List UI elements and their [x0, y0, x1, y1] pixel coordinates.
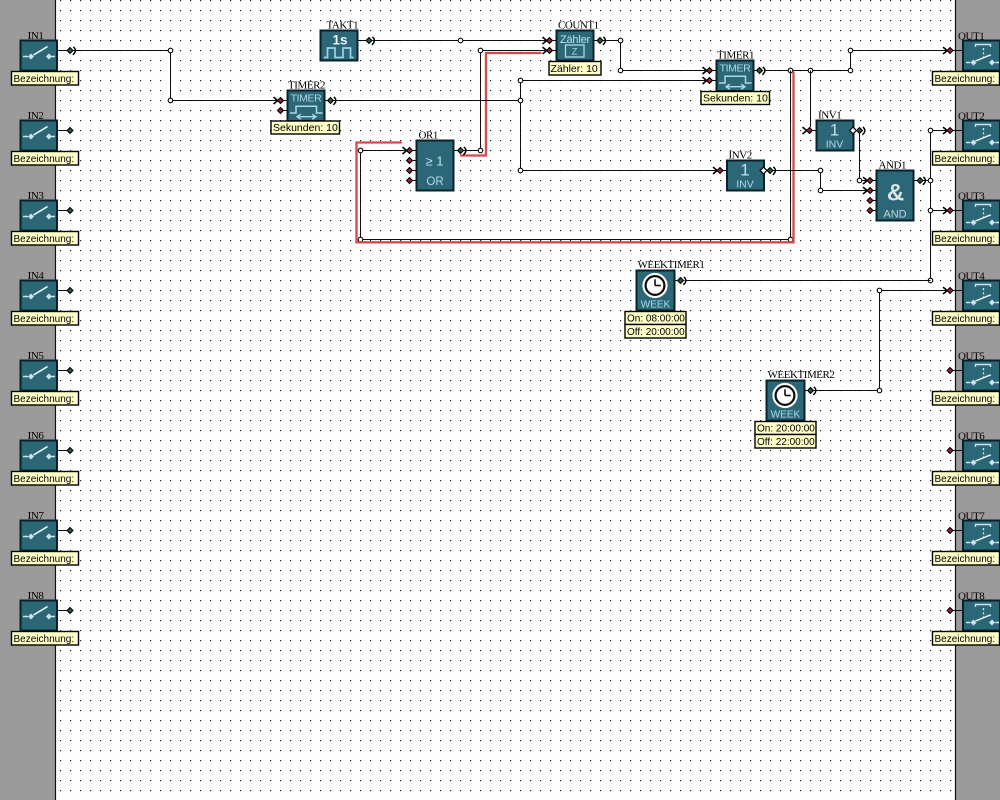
junction corner (859,180) [857, 178, 862, 183]
svg-text:Bezeichnung:: Bezeichnung: [14, 74, 75, 85]
pin 3 input OR1 [407, 168, 417, 174]
input block IN1 [21, 41, 58, 71]
svg-text:OR1: OR1 [419, 130, 438, 142]
or gate block OR1 [417, 141, 454, 191]
svg-text:OR: OR [426, 176, 443, 188]
junction node (820,170) [818, 168, 823, 173]
value label Sekunden TIMER1 [701, 92, 770, 105]
svg-text:OUT5: OUT5 [958, 350, 985, 362]
svg-text:Bezeichnung:: Bezeichnung: [935, 154, 996, 165]
wire net OR1.out to COUNT1.in2 [464, 51, 546, 151]
svg-text:Bezeichnung:: Bezeichnung: [935, 314, 996, 325]
junction corner (790,239) [788, 237, 793, 242]
value label On time WEEKTIMER1 [625, 312, 686, 325]
output pin WEEKTIMER2 [805, 387, 816, 395]
value label Bezeichnung IN7 [12, 552, 79, 566]
junction corner (620,40) [618, 38, 623, 43]
svg-text:AND: AND [883, 209, 906, 221]
input pin stub OUT7 [947, 528, 963, 534]
value label Off time WEEKTIMER1 [625, 325, 686, 339]
junction corner (930,280) [928, 278, 933, 283]
highlighted red wire OR1.out to COUNT1.in2 [461, 53, 541, 156]
junction node (930,180) [928, 178, 933, 183]
junction node (460,40) [458, 38, 463, 43]
svg-text:WEEKTIMER2: WEEKTIMER2 [768, 369, 835, 381]
pin 4 input AND1 [867, 208, 876, 214]
svg-text:1s: 1s [332, 33, 347, 48]
pin 4 input OR1 [407, 178, 417, 184]
svg-text:Zähler: Zähler [560, 34, 591, 46]
svg-text:TAKT1: TAKT1 [327, 20, 359, 32]
junction corner (850,70) [848, 68, 853, 73]
svg-text:On: 20:00:00: On: 20:00:00 [757, 424, 815, 435]
svg-text:≥ 1: ≥ 1 [426, 154, 444, 169]
input block IN3 [21, 201, 58, 231]
svg-text:WEEKTIMER1: WEEKTIMER1 [638, 259, 705, 271]
svg-text:OUT2: OUT2 [958, 110, 984, 122]
svg-text:INV: INV [826, 139, 844, 151]
svg-text:Bezeichnung:: Bezeichnung: [935, 74, 996, 85]
value label Bezeichnung IN2 [12, 152, 79, 166]
junction node (480,150) [478, 148, 483, 153]
svg-text:TIMER1: TIMER1 [717, 50, 754, 62]
clock generator block TAKT1 [321, 31, 358, 61]
svg-text:Bezeichnung:: Bezeichnung: [935, 634, 996, 645]
value label Bezeichnung OUT3 [933, 232, 1000, 246]
junction corner (520,80) [518, 78, 523, 83]
output block OUT3 [963, 201, 1000, 231]
input pin INV2 [713, 167, 727, 174]
output pin TIMER1 [754, 67, 765, 75]
svg-text:Bezeichnung:: Bezeichnung: [14, 474, 75, 485]
and gate block AND1 [877, 171, 914, 221]
svg-text:Bezeichnung:: Bezeichnung: [14, 234, 75, 245]
output block OUT5 [963, 361, 1000, 391]
svg-text:IN4: IN4 [28, 270, 45, 282]
svg-text:AND1: AND1 [879, 160, 907, 172]
input pin stub OUT2 [943, 127, 963, 134]
junction corner (820,190) [818, 188, 823, 193]
wire net TIMER2.out vertical distribution [334, 81, 717, 171]
pin 3 input AND1 [867, 198, 876, 204]
junction corner (480,50) [478, 48, 483, 53]
input pin stub OUT1 [943, 47, 963, 54]
input pin stub OUT3 [943, 207, 963, 214]
output pin stub IN7 [57, 528, 73, 534]
svg-text:Bezeichnung:: Bezeichnung: [935, 234, 996, 245]
svg-text:OUT8: OUT8 [958, 590, 985, 602]
junction node (930,130) [928, 128, 933, 133]
value label Bezeichnung OUT7 [933, 552, 1000, 566]
output pin stub IN3 [57, 208, 73, 214]
output pin TIMER2 [325, 97, 336, 105]
pin 2 input OR1 [407, 158, 417, 164]
wire net TAKT1 to COUNT1.in1 [373, 40, 546, 42]
wire net IN1 to TIMER2.in1 [74, 51, 277, 101]
value label Bezeichnung IN1 [12, 72, 79, 86]
junction node (520,100) [518, 98, 523, 103]
timer block TIMER1 [717, 61, 754, 92]
wire net INV1.out to AND1.in1 [860, 134, 867, 181]
svg-text:Bezeichnung:: Bezeichnung: [935, 474, 996, 485]
output pin OR1 [454, 147, 466, 155]
svg-text:IN3: IN3 [28, 190, 45, 202]
output pin COUNT1 [594, 37, 606, 45]
svg-text:OUT1: OUT1 [958, 30, 984, 42]
svg-text:TIMER: TIMER [720, 63, 751, 75]
svg-text:OUT7: OUT7 [958, 510, 985, 522]
pin 2 input TIMER2 [278, 108, 287, 114]
svg-text:Bezeichnung:: Bezeichnung: [935, 394, 996, 405]
value label Zaehler 10 [549, 62, 601, 76]
input block IN5 [21, 361, 58, 391]
counter block COUNT1 [557, 31, 594, 61]
junction corner (170,100) [168, 98, 173, 103]
svg-text:TIMER: TIMER [291, 93, 322, 105]
timer block TIMER2 [288, 91, 325, 122]
output pin stub IN4 [57, 288, 73, 294]
svg-text:On: 08:00:00: On: 08:00:00 [627, 314, 685, 325]
svg-text:INV1: INV1 [818, 110, 841, 122]
output pin stub IN6 [57, 448, 73, 454]
junction corner (879,290) [877, 288, 882, 293]
output pin TAKT1 [358, 37, 374, 45]
junction node (810,70) [808, 68, 813, 73]
value label Bezeichnung IN3 [12, 232, 79, 246]
svg-text:Bezeichnung:: Bezeichnung: [14, 394, 75, 405]
input block IN4 [21, 281, 58, 311]
output pin WEEKTIMER1 [675, 277, 686, 285]
svg-text:WEEK: WEEK [641, 300, 671, 311]
svg-text:IN8: IN8 [28, 590, 45, 602]
output block OUT6 [963, 441, 1000, 471]
junction corner (360,239) [358, 237, 363, 242]
weekly timer block WEEKTIMER1 [637, 271, 675, 311]
svg-text:Bezeichnung:: Bezeichnung: [935, 554, 996, 565]
input block IN2 [21, 121, 58, 151]
svg-text:&: & [887, 180, 904, 207]
pin 2 input COUNT1 [543, 47, 557, 54]
pin 1 input TIMER1 [703, 67, 717, 74]
value label Bezeichnung OUT8 [933, 632, 1000, 646]
junction node (790,70) [788, 68, 793, 73]
input block IN6 [21, 441, 58, 471]
pin 2 input AND1 [863, 187, 877, 194]
highlighted red wire feedback loop [357, 73, 794, 243]
svg-text:WEEK: WEEK [771, 410, 801, 421]
junction corner (360,150) [358, 148, 363, 153]
junction corner (850,50) [848, 48, 853, 53]
output block OUT8 [963, 601, 1000, 631]
svg-text:IN1: IN1 [28, 30, 44, 42]
wire net WEEKTIMER1.out to node (930,280) [685, 280, 931, 282]
value label Bezeichnung IN4 [12, 312, 79, 326]
value label Bezeichnung IN5 [12, 392, 79, 406]
value label On time WEEKTIMER2 [755, 422, 816, 435]
value label Bezeichnung OUT4 [933, 312, 1000, 326]
junction node (930,210) [928, 208, 933, 213]
svg-text:IN6: IN6 [28, 430, 45, 442]
svg-text:INV2: INV2 [729, 150, 752, 162]
svg-text:OUT6: OUT6 [958, 430, 985, 442]
value label Bezeichnung IN8 [12, 632, 79, 646]
junction corner (170,50) [168, 48, 173, 53]
input pin stub OUT5 [947, 368, 963, 374]
pin 1 input AND1 [863, 177, 877, 184]
wire branch to INV1.in [810, 71, 812, 128]
svg-text:Bezeichnung:: Bezeichnung: [14, 634, 75, 645]
output pin AND1 [914, 177, 926, 185]
wire net COUNT1.out to TIMER1.in1 [604, 41, 707, 71]
input pin INV1 [803, 127, 817, 134]
pin 1 input COUNT1 [543, 37, 557, 44]
output block OUT7 [963, 521, 1000, 551]
value label Bezeichnung OUT1 [933, 72, 1000, 86]
input pin stub OUT4 [943, 287, 963, 294]
value label Bezeichnung OUT6 [933, 472, 1000, 486]
inverter block INV2 [727, 161, 764, 191]
svg-text:TIMER2: TIMER2 [288, 80, 325, 92]
svg-text:IN5: IN5 [28, 350, 45, 362]
wire net AND1.out to OUT2 OUT3 [924, 131, 947, 281]
value label Bezeichnung IN6 [12, 472, 79, 486]
wire feedback TIMER1.out to OR1.in1 [361, 71, 791, 240]
svg-text:1: 1 [740, 161, 749, 180]
pin 1 input OR1 [403, 147, 417, 154]
svg-text:OUT4: OUT4 [958, 270, 985, 282]
value label Bezeichnung OUT2 [933, 152, 1000, 166]
svg-text:1: 1 [830, 121, 839, 140]
svg-text:Off: 22:00:00: Off: 22:00:00 [757, 437, 815, 448]
svg-text:Zähler: 10: Zähler: 10 [551, 63, 598, 75]
value label Off time WEEKTIMER2 [755, 435, 816, 449]
pin 1 input TIMER2 [274, 97, 288, 104]
svg-text:COUNT1: COUNT1 [558, 20, 599, 32]
svg-text:OUT3: OUT3 [958, 190, 985, 202]
svg-text:Z: Z [572, 47, 578, 58]
junction corner (620,70) [618, 68, 623, 73]
junction corner (520,170) [518, 168, 523, 173]
svg-text:Bezeichnung:: Bezeichnung: [14, 554, 75, 565]
input pin stub OUT8 [947, 608, 963, 614]
svg-text:Bezeichnung:: Bezeichnung: [14, 314, 75, 325]
svg-text:Sekunden: 10: Sekunden: 10 [703, 93, 768, 105]
svg-text:IN7: IN7 [28, 510, 45, 522]
input block IN8 [21, 601, 58, 631]
inverter block INV1 [817, 121, 854, 151]
wire net INV2.out to AND1.in2 [774, 171, 867, 191]
svg-text:Off: 20:00:00: Off: 20:00:00 [627, 327, 685, 338]
input pin stub OUT6 [947, 448, 963, 454]
output pin stub IN8 [57, 608, 73, 614]
output block OUT1 [963, 41, 1000, 71]
negated output pin INV1 [850, 127, 865, 135]
output block OUT2 [963, 121, 1000, 151]
input block IN7 [21, 521, 58, 551]
svg-text:INV: INV [736, 179, 754, 191]
junction corner (879,390) [877, 388, 882, 393]
output pin stub IN1 [57, 47, 75, 55]
weekly timer block WEEKTIMER2 [767, 381, 805, 421]
output pin stub IN2 [57, 128, 73, 134]
wire net WEEKTIMER2.out to OUT4 [813, 291, 946, 391]
negated output pin INV2 [760, 167, 775, 175]
pin 2 input TIMER1 [703, 77, 717, 84]
svg-text:IN2: IN2 [28, 110, 44, 122]
output block OUT4 [963, 281, 1000, 311]
svg-text:Sekunden: 10: Sekunden: 10 [273, 122, 338, 134]
value label Bezeichnung OUT5 [933, 392, 1000, 406]
value label Sekunden TIMER2 [271, 121, 340, 134]
output pin stub IN5 [57, 368, 73, 374]
svg-text:Bezeichnung:: Bezeichnung: [14, 154, 75, 165]
wire net TIMER1.out to OUT1 [764, 51, 946, 71]
